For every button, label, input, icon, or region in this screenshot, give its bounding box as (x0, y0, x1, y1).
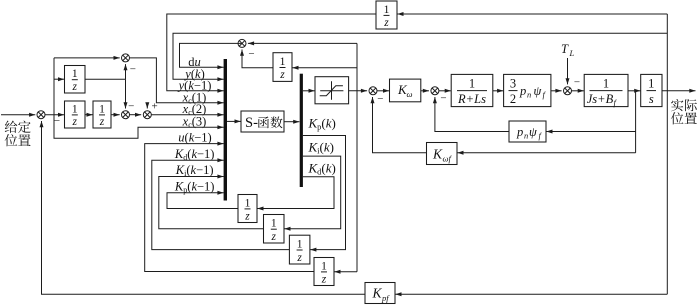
svg-text:xc(3): xc(3) (182, 115, 207, 130)
svg-text:1: 1 (321, 260, 327, 272)
wire: bar2 to saturation block (303, 90, 315, 92)
wire: position feedback into K-pf (395, 293, 667, 295)
wire: output actual position (662, 90, 696, 92)
svg-text:1: 1 (603, 77, 609, 91)
svg-text:ψ: ψ (534, 84, 542, 98)
wire: into pn psi-f block (546, 131, 635, 133)
wire: y(k) feedback line (173, 33, 667, 79)
svg-text:−: − (574, 77, 580, 89)
block K-omega (390, 79, 421, 102)
wire: y(k-1) from top delay to bar (167, 14, 376, 91)
wire: A3 output xc2 row into bar (151, 114, 224, 116)
wire: u tap vertical (356, 43, 358, 271)
svg-text:z: z (72, 81, 78, 93)
svg-text:Kd(k−1): Kd(k−1) (174, 147, 215, 162)
svg-text:n: n (527, 90, 531, 100)
wire: S-function to output bar (284, 121, 299, 123)
wire: MA to K-omega block (377, 90, 389, 92)
svg-text:z: z (244, 210, 250, 222)
svg-text:Kp(k−1): Kp(k−1) (174, 179, 215, 194)
block 1/(R+Ls) (451, 74, 493, 106)
summing junction A1 (upper diff) (122, 54, 130, 62)
wire: MB to R+Ls block (439, 90, 451, 92)
svg-text:K: K (432, 147, 443, 162)
svg-text:R+Ls: R+Ls (457, 92, 486, 106)
svg-text:z: z (321, 273, 327, 285)
delay block Z1 1/z (238, 195, 257, 223)
delay block 1/z upper-left (65, 66, 86, 94)
wire: Z3 output to Kd(k-1) row (152, 160, 290, 249)
svg-text:s: s (649, 92, 654, 106)
block 3/2 pn psi-f (torque constant) (504, 74, 551, 106)
svg-text:1: 1 (245, 197, 251, 209)
delay block Z3 1/z (289, 235, 310, 264)
block K-pf (365, 283, 395, 304)
wire: Z1 output to Kp(k-1) row (167, 193, 238, 209)
wire: main error line to first delay (45, 114, 64, 116)
wire: e(k) stepped line to xc3 row (54, 115, 224, 139)
wire: u(k) line to du junction (248, 42, 357, 44)
svg-text:−: − (440, 92, 446, 104)
wire: u tap into Z4 (334, 271, 357, 273)
wire: Js+Bf to 1/s with speed tap (628, 90, 640, 92)
neural-network input bar (224, 59, 227, 201)
delay block Z2 1/z (264, 215, 285, 244)
block 1/(Js+Bf) (584, 74, 628, 106)
summing junction MB (current loop) (431, 87, 439, 95)
wire: du row into bar (180, 43, 243, 67)
svg-text:Ki(k): Ki(k) (308, 140, 335, 156)
svg-text:p: p (519, 84, 526, 98)
summing junction E (position error) (37, 111, 45, 119)
wire: MC to Js+Bf block (572, 90, 584, 92)
svg-text:p: p (516, 125, 523, 139)
summing junction MA (speed loop) (369, 87, 377, 95)
delay block 1/z top (376, 1, 397, 29)
svg-text:2: 2 (510, 92, 516, 106)
wire: between delay chain-1 and chain-2 (85, 114, 93, 116)
wire: error signal e(k) tap vertical (53, 58, 55, 115)
svg-text:1: 1 (297, 238, 303, 250)
wire: A1 output to xc1 row and drop into A3 (129, 58, 223, 103)
wire: position feedback up into error junction (41, 121, 43, 294)
svg-text:Ki(k−1): Ki(k−1) (175, 163, 214, 178)
svg-text:−: − (130, 64, 136, 76)
summing junction MC (torque) (564, 87, 572, 95)
svg-text:ω: ω (407, 89, 413, 99)
node: given-position input 给定位置 (5, 121, 18, 133)
svg-text:z: z (279, 69, 285, 81)
svg-text:n: n (524, 130, 528, 140)
svg-text:S-: S- (245, 115, 258, 131)
wire: input to error summing junction (1, 114, 35, 116)
wire: K-pf output to error junction (42, 293, 366, 296)
svg-text:Kp(k): Kp(k) (308, 115, 336, 131)
svg-text:−: − (248, 48, 254, 60)
delay block 1/z chain-1 (65, 101, 86, 128)
neural-network output bar (300, 74, 303, 187)
wire: delay C output up into DU junction (242, 50, 273, 68)
svg-text:Kd(k): Kd(k) (308, 160, 336, 176)
block pn psi-f (back EMF) (509, 121, 546, 142)
wire: back EMF into MB bottom (435, 97, 509, 132)
wire: u into delay C (292, 67, 357, 69)
svg-text:ψ: ψ (529, 125, 537, 139)
svg-text:Js+B: Js+B (587, 92, 614, 106)
svg-text:L: L (569, 48, 575, 58)
wire: Kp(k) line down to delay Z3 (303, 136, 346, 250)
svg-text:1: 1 (384, 4, 390, 16)
delay block Z4 1/z (314, 258, 334, 286)
svg-text:1: 1 (99, 103, 105, 115)
block S-function S-函数 (241, 111, 284, 132)
svg-text:3: 3 (510, 77, 516, 91)
wire: K-omega-f output into MA bottom (373, 97, 428, 153)
svg-text:1: 1 (280, 56, 286, 68)
wire: A2 to A3 (130, 114, 142, 116)
svg-text:1: 1 (72, 68, 78, 80)
svg-text:z: z (383, 17, 389, 29)
wire: speed tap down to pn-psi-f and K-omega-f (635, 91, 637, 153)
svg-text:1: 1 (469, 77, 475, 91)
wire: Z4 output to u(k-1) row (145, 144, 314, 272)
svg-text:z: z (72, 116, 78, 128)
block K-omega-f (427, 143, 458, 165)
svg-text:−: − (128, 101, 134, 113)
delay block 1/z for du (273, 53, 292, 82)
wire: y(k-1) feedback top line from position tap (397, 13, 667, 15)
svg-text:1: 1 (271, 218, 277, 230)
wire: Ki(k) line down to delay Z2 (284, 156, 340, 229)
wire: position feedback main vertical (666, 14, 668, 294)
wire: chain-2 output into A2 (111, 114, 120, 116)
svg-text:u(k−1): u(k−1) (178, 130, 211, 144)
svg-text:z: z (99, 116, 105, 128)
delay block 1/z chain-2 (93, 101, 111, 128)
wire: Kd(k) line down to delay Z1 (257, 177, 334, 209)
svg-text:K: K (372, 286, 383, 301)
wire: saturation output to junction MA (349, 90, 368, 92)
wire: R+Ls to torque block (493, 90, 504, 92)
svg-text:−: − (54, 115, 60, 127)
saturation block (limiter) (315, 77, 349, 104)
wire: bar to S-function (227, 120, 241, 122)
svg-text:−: − (377, 93, 383, 105)
svg-text:1: 1 (648, 77, 654, 91)
wire: speed feedback into K-omega-f (457, 152, 635, 154)
wire: torque block to junction MC (551, 90, 562, 92)
summing junction A3 (143, 111, 151, 119)
wire: upper 1/z output to diff junctions (85, 78, 126, 80)
summing junction DU (238, 39, 246, 47)
svg-text:z: z (296, 252, 302, 264)
summing junction A2 (lower diff) (122, 111, 130, 119)
svg-text:z: z (271, 231, 277, 243)
wire: branch into upper delay (54, 78, 64, 80)
svg-text:1: 1 (72, 103, 78, 115)
block 1/s integrator (641, 74, 662, 106)
wire: K-omega to junction MB (421, 90, 429, 92)
node: actual position output 实际位置 (671, 99, 683, 111)
svg-text:T: T (561, 42, 569, 56)
wire: Z2 output to Ki(k-1) row (159, 177, 264, 229)
